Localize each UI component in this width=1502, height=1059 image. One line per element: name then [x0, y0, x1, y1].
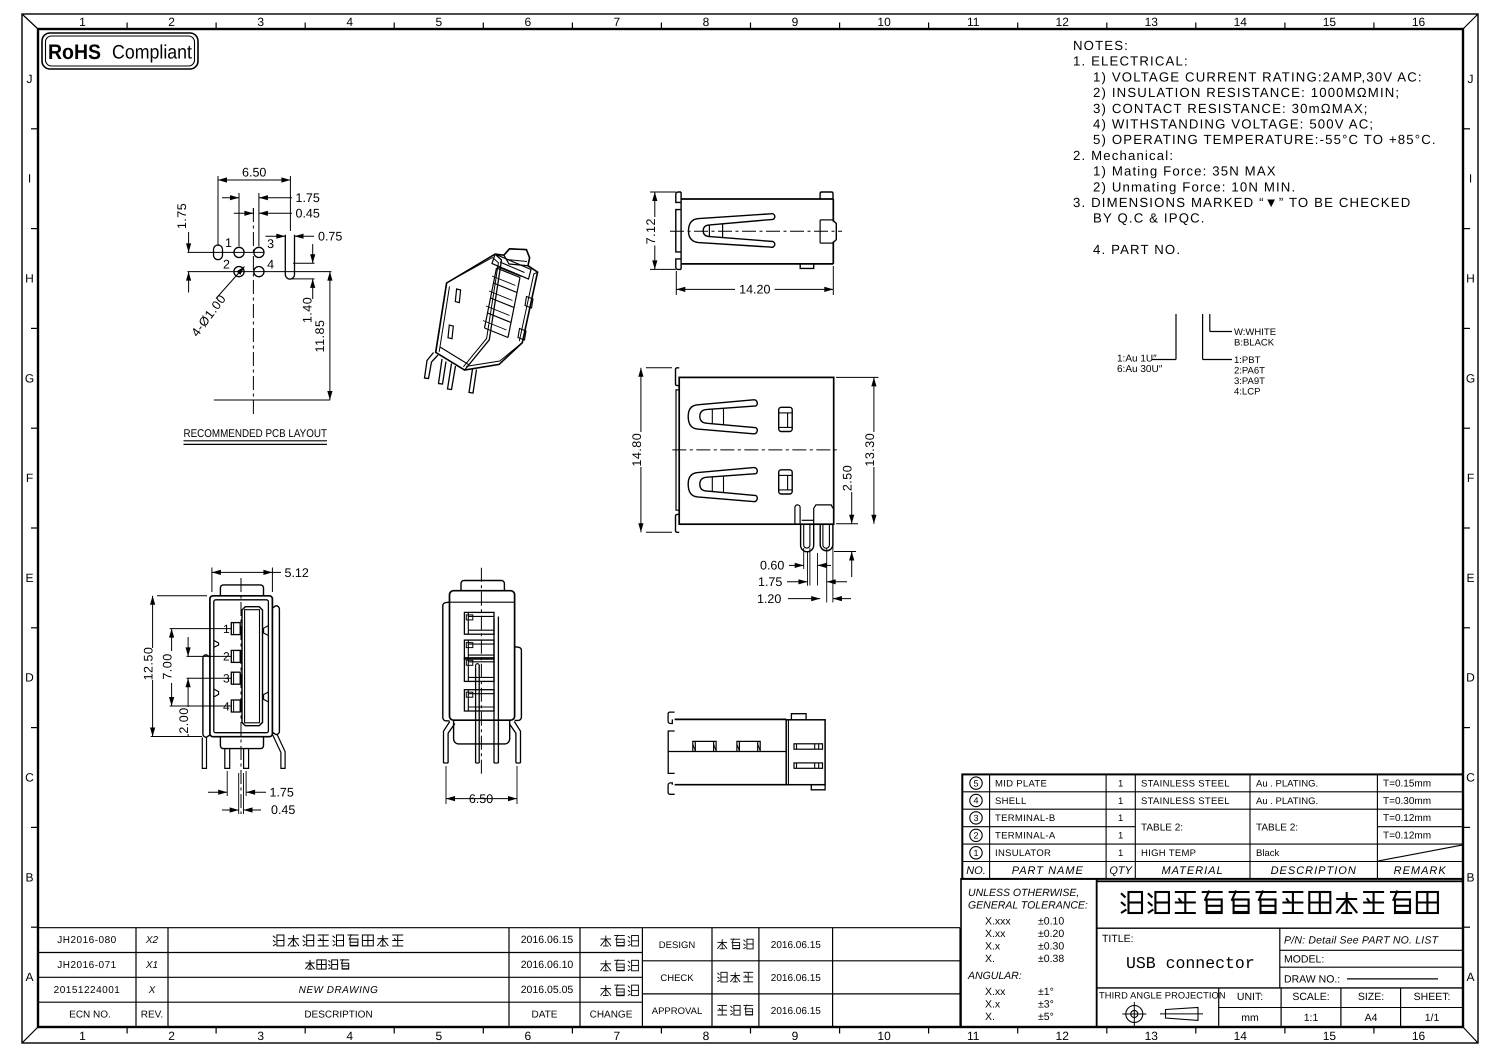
svg-text:X.: X. — [985, 953, 995, 965]
approval block grid — [642, 928, 960, 1027]
svg-text:2016.06.15: 2016.06.15 — [771, 940, 821, 951]
rear view bottom cap — [454, 720, 510, 744]
svg-text:STAINLESS STEEL: STAINLESS STEEL — [1141, 778, 1230, 789]
top view dim 7.12 — [650, 191, 676, 193]
mating view tongue — [242, 607, 263, 726]
bottom view right block top tab — [791, 714, 806, 720]
svg-text:6: 6 — [524, 15, 531, 29]
svg-text:X1: X1 — [145, 960, 158, 971]
mating view dim 5.12 — [211, 568, 213, 593]
svg-text:RECOMMENDED PCB LAYOUT: RECOMMENDED PCB LAYOUT — [184, 428, 328, 440]
svg-text:PART NAME: PART NAME — [1012, 865, 1084, 877]
svg-text:X.: X. — [985, 1011, 995, 1023]
iso mating face rim — [492, 254, 531, 279]
front view lower rivet — [779, 470, 793, 494]
svg-text:B: B — [25, 870, 33, 884]
svg-text:I: I — [1469, 172, 1472, 186]
revision table CJK descriptions — [273, 934, 638, 995]
svg-text:13: 13 — [1145, 1029, 1159, 1043]
svg-text:MODEL:: MODEL: — [1284, 954, 1324, 966]
svg-text:1: 1 — [1118, 831, 1123, 842]
svg-text:9: 9 — [792, 1029, 799, 1043]
mating view contacts — [231, 623, 240, 635]
svg-text:Black: Black — [1256, 848, 1279, 859]
pcb dim 1.75 left vertical — [188, 232, 190, 252]
svg-text:H: H — [25, 272, 34, 286]
svg-text:F: F — [26, 471, 33, 485]
svg-text:4. PART NO.: 4. PART NO. — [1093, 242, 1181, 257]
svg-text:±0.30: ±0.30 — [1038, 941, 1064, 953]
svg-text:5: 5 — [973, 778, 978, 788]
svg-text:H: H — [1466, 272, 1475, 286]
svg-text:ANGULAR:: ANGULAR: — [967, 970, 1022, 982]
svg-text:1: 1 — [225, 236, 232, 250]
front view dim 14.80 — [646, 367, 672, 369]
svg-text:TERMINAL-A: TERMINAL-A — [995, 831, 1056, 842]
top view right bump — [833, 222, 836, 242]
svg-text:1.75: 1.75 — [175, 203, 189, 229]
svg-text:T=0.12mm: T=0.12mm — [1383, 813, 1431, 824]
pcb dim 0.45 — [252, 208, 254, 213]
svg-text:6.50: 6.50 — [242, 166, 266, 180]
svg-text:9: 9 — [792, 15, 799, 29]
mating view body shell — [210, 596, 273, 737]
svg-text:INSULATOR: INSULATOR — [995, 848, 1051, 859]
svg-text:3) CONTACT RESISTANCE: 30mΩMAX: 3) CONTACT RESISTANCE: 30mΩMAX; — [1093, 101, 1369, 116]
title block grid — [1097, 881, 1463, 1027]
svg-text:2016.06.15: 2016.06.15 — [771, 973, 821, 984]
pcb dim 1.40 — [293, 262, 315, 264]
front view center line — [672, 449, 839, 451]
svg-text:20151224001: 20151224001 — [54, 985, 121, 996]
svg-text:8: 8 — [703, 15, 710, 29]
bottom view spring notch right — [737, 741, 760, 751]
svg-text:APPROVAL: APPROVAL — [652, 1006, 703, 1017]
svg-text:RoHS: RoHS — [48, 41, 101, 64]
mating view left side tab — [203, 655, 210, 738]
svg-text:JH2016-071: JH2016-071 — [57, 960, 116, 971]
svg-text:NO.: NO. — [966, 865, 986, 877]
svg-text:±3°: ±3° — [1038, 999, 1054, 1011]
svg-text:C: C — [1466, 771, 1475, 785]
front view dim 0.60 — [789, 564, 804, 566]
svg-text:4: 4 — [346, 1029, 353, 1043]
svg-text:2: 2 — [168, 15, 175, 29]
svg-text:CHANGE: CHANGE — [590, 1010, 633, 1021]
front view lower contact spring — [688, 468, 757, 502]
front view pin B — [820, 524, 833, 551]
iso right rivets — [525, 297, 533, 309]
iso front wall edges — [436, 254, 502, 370]
svg-text:TABLE 2:: TABLE 2: — [1141, 823, 1183, 834]
front view upper contact spring — [688, 400, 757, 434]
svg-text:2) Unmating Force: 10N MIN.: 2) Unmating Force: 10N MIN. — [1093, 179, 1296, 194]
revision table grid — [38, 928, 642, 1027]
svg-text:1.75: 1.75 — [270, 785, 294, 799]
svg-text:5: 5 — [435, 15, 442, 29]
svg-text:2) INSULATION RESISTANCE: 1000: 2) INSULATION RESISTANCE: 1000MΩMIN; — [1093, 85, 1400, 100]
rear view body — [450, 591, 515, 721]
mating view dim 0.45 bottom — [238, 773, 240, 814]
rear view — [443, 568, 522, 806]
iso bottom pins — [425, 353, 439, 379]
front view — [630, 368, 879, 606]
svg-text:1. ELECTRICAL:: 1. ELECTRICAL: — [1073, 54, 1189, 69]
mating view top cap — [220, 585, 263, 596]
svg-text:ECN NO.: ECN NO. — [69, 1010, 111, 1021]
rear view left tab — [443, 602, 450, 721]
mating view contact extension lines — [170, 628, 232, 630]
svg-text:4:LCP: 4:LCP — [1234, 387, 1260, 398]
svg-text:1: 1 — [1118, 796, 1123, 807]
svg-text:CHECK: CHECK — [660, 973, 694, 984]
parts table cell texts — [966, 778, 1447, 876]
svg-text:1: 1 — [79, 1029, 86, 1043]
svg-text:DESCRIPTION: DESCRIPTION — [1271, 865, 1357, 877]
svg-text:7.00: 7.00 — [161, 653, 175, 679]
svg-text:T=0.15mm: T=0.15mm — [1383, 778, 1431, 789]
svg-text:3: 3 — [257, 1029, 264, 1043]
svg-text:C: C — [25, 771, 34, 785]
svg-text:±5°: ±5° — [1038, 1011, 1054, 1023]
svg-text:±1°: ±1° — [1038, 986, 1054, 998]
svg-text:QTY: QTY — [1109, 865, 1132, 877]
svg-text:7: 7 — [614, 1029, 621, 1043]
svg-text:DRAW NO.:: DRAW NO.: — [1284, 974, 1340, 986]
svg-text:16: 16 — [1412, 1029, 1426, 1043]
iso contact slots zigzag — [485, 268, 521, 338]
front view dim 2.50 — [836, 523, 858, 525]
bottom view spring notch left — [693, 741, 716, 751]
svg-text:2016.06.15: 2016.06.15 — [771, 1006, 821, 1017]
svg-text:13: 13 — [1145, 15, 1159, 29]
svg-text:11.85: 11.85 — [313, 320, 327, 353]
svg-text:2: 2 — [973, 831, 978, 841]
rear view right corner pin — [509, 722, 520, 764]
svg-text:REMARK: REMARK — [1394, 865, 1447, 877]
svg-text:SCALE:: SCALE: — [1292, 991, 1329, 1003]
mating view center pins — [225, 749, 230, 769]
pcb leader 4-dia-1.00 — [216, 267, 245, 299]
svg-text:T=0.12mm: T=0.12mm — [1383, 831, 1431, 842]
svg-text:TITLE:: TITLE: — [1102, 933, 1134, 945]
pcb layout view — [175, 166, 342, 445]
pcb layout row line pins 1-3 — [187, 251, 263, 253]
RoHS Compliant badge — [42, 33, 198, 69]
parts list table grid — [962, 774, 1463, 879]
svg-text:MATERIAL: MATERIAL — [1161, 865, 1223, 877]
svg-text:X.xxx: X.xxx — [985, 916, 1011, 928]
title texts — [1099, 933, 1450, 1024]
iso body silhouette — [436, 249, 538, 370]
parts table remark diagonal — [1378, 845, 1462, 861]
svg-text:X: X — [148, 985, 156, 996]
svg-text:2.00: 2.00 — [177, 707, 191, 733]
svg-text:2.50: 2.50 — [841, 465, 855, 491]
mating view left leg — [202, 737, 206, 768]
mating view shell notches — [214, 640, 219, 647]
svg-text:2:PA6T: 2:PA6T — [1234, 366, 1265, 377]
rear view inner top line — [450, 601, 515, 603]
svg-text:7: 7 — [614, 15, 621, 29]
svg-text:J: J — [1468, 72, 1474, 86]
pcb hole pin 3 — [254, 247, 264, 257]
front view pin A — [801, 524, 814, 552]
svg-text:SHEET:: SHEET: — [1414, 991, 1451, 1003]
svg-text:0.45: 0.45 — [271, 803, 295, 817]
svg-text:TERMINAL-B: TERMINAL-B — [995, 813, 1056, 824]
svg-text:1: 1 — [1118, 813, 1123, 824]
svg-text:T=0.30mm: T=0.30mm — [1383, 796, 1431, 807]
front view pin extension lines — [803, 548, 805, 569]
front view left flange — [676, 368, 680, 386]
front view dim 1.20 — [788, 598, 820, 600]
rear view top cap — [461, 581, 504, 591]
part number legend tree — [1117, 314, 1276, 398]
svg-text:1.40: 1.40 — [301, 297, 315, 323]
pcb dim 0.75 — [266, 235, 286, 237]
iso wall slots — [455, 289, 460, 303]
svg-text:G: G — [25, 371, 34, 385]
svg-text:4) WITHSTANDING VOLTAGE: 500V: 4) WITHSTANDING VOLTAGE: 500V AC; — [1093, 117, 1374, 132]
pcb hole pin 4 — [254, 267, 264, 277]
front view body — [679, 377, 834, 524]
svg-text:GENERAL TOLERANCE:: GENERAL TOLERANCE: — [968, 900, 1088, 912]
mating view right side tab — [272, 606, 279, 735]
svg-text:Au . PLATING.: Au . PLATING. — [1256, 796, 1318, 807]
bottom view left mid strip — [668, 731, 674, 773]
svg-text:X.x: X.x — [985, 941, 1001, 953]
svg-text:16: 16 — [1412, 15, 1426, 29]
svg-text:12.50: 12.50 — [142, 647, 156, 681]
svg-text:F: F — [1467, 471, 1474, 485]
third angle projection symbol — [1122, 1002, 1203, 1026]
svg-text:14: 14 — [1234, 1029, 1248, 1043]
svg-text:STAINLESS STEEL: STAINLESS STEEL — [1141, 796, 1230, 807]
svg-text:2016.06.10: 2016.06.10 — [521, 959, 574, 971]
bottom view mid line — [668, 751, 787, 753]
svg-text:A4: A4 — [1365, 1012, 1378, 1024]
svg-text:SIZE:: SIZE: — [1358, 991, 1384, 1003]
bottom view right block — [786, 720, 825, 785]
svg-text:2: 2 — [223, 258, 230, 272]
svg-text:X.xx: X.xx — [985, 928, 1006, 940]
rear view contacts — [464, 612, 494, 634]
svg-text:3. DIMENSIONS MARKED “▼” TO BE: 3. DIMENSIONS MARKED “▼” TO BE CHECKED — [1073, 195, 1411, 210]
svg-text:UNIT:: UNIT: — [1237, 991, 1263, 1003]
svg-text:1.75: 1.75 — [296, 191, 320, 205]
svg-text:11: 11 — [967, 15, 980, 29]
rear view center line — [480, 568, 482, 777]
svg-text:NEW DRAWING: NEW DRAWING — [299, 985, 379, 996]
svg-text:1:PBT: 1:PBT — [1234, 355, 1261, 366]
pcb dim 1.75 top — [238, 193, 240, 246]
svg-text:X.xx: X.xx — [985, 986, 1006, 998]
svg-text:JH2016-080: JH2016-080 — [57, 935, 116, 946]
svg-text:1) Mating Force: 35N MAX: 1) Mating Force: 35N MAX — [1093, 164, 1277, 179]
svg-text:5: 5 — [435, 1029, 442, 1043]
svg-text:A: A — [25, 970, 33, 984]
svg-text:DATE: DATE — [532, 1010, 558, 1021]
svg-text:1: 1 — [973, 848, 978, 858]
top view left flange — [676, 192, 681, 202]
svg-text:1) VOLTAGE CURRENT RATING:2AMP: 1) VOLTAGE CURRENT RATING:2AMP,30V AC: — [1093, 69, 1423, 84]
svg-text:W:WHITE: W:WHITE — [1234, 327, 1276, 338]
svg-text:4: 4 — [267, 258, 274, 272]
svg-text:15: 15 — [1323, 15, 1337, 29]
tolerance block — [961, 879, 1097, 1027]
svg-text:mm: mm — [1241, 1012, 1259, 1024]
notes text block — [1073, 38, 1437, 257]
parts table item number circles — [970, 777, 982, 859]
svg-text:X2: X2 — [145, 935, 159, 946]
svg-text:±0.20: ±0.20 — [1038, 928, 1064, 940]
svg-text:MID PLATE: MID PLATE — [995, 778, 1047, 789]
svg-text:11: 11 — [967, 1029, 980, 1043]
mating view dim 2.00 — [187, 637, 189, 656]
svg-text:USB connector: USB connector — [1126, 954, 1255, 973]
svg-text:HIGH TEMP: HIGH TEMP — [1141, 848, 1196, 859]
svg-text:SHELL: SHELL — [995, 796, 1027, 807]
svg-text:10: 10 — [877, 15, 891, 29]
svg-text:UNLESS OTHERWISE,: UNLESS OTHERWISE, — [968, 887, 1079, 899]
front view dim 13.30 — [836, 376, 879, 378]
svg-text:15: 15 — [1323, 1029, 1337, 1043]
approval block texts — [652, 939, 822, 1017]
top view — [644, 192, 842, 297]
pcb hole slot right — [285, 235, 294, 279]
pcb bottom line — [214, 399, 330, 401]
svg-text:14.80: 14.80 — [630, 433, 644, 467]
svg-text:DESIGN: DESIGN — [659, 940, 696, 951]
bottom view left bottom hook — [668, 783, 675, 794]
mating view right leg — [273, 734, 286, 768]
rear view dim 6.50 — [445, 766, 447, 804]
svg-text:14: 14 — [1234, 15, 1248, 29]
iso extra shell edges — [466, 272, 537, 366]
svg-text:J: J — [27, 72, 33, 86]
svg-text:B:BLACK: B:BLACK — [1234, 338, 1275, 349]
top view dim 14.20 — [675, 271, 677, 295]
svg-text:D: D — [25, 671, 34, 685]
pcb hole slot left — [214, 245, 223, 260]
svg-text:A: A — [1466, 970, 1474, 984]
svg-text:THIRD ANGLE PROJECTION: THIRD ANGLE PROJECTION — [1099, 991, 1226, 1001]
rear view pin A — [493, 619, 495, 763]
svg-text:2016.06.15: 2016.06.15 — [521, 934, 574, 946]
front view terminal seams — [795, 505, 800, 524]
svg-text:3: 3 — [257, 15, 264, 29]
company name (CJK pseudo-glyphs) — [1121, 891, 1438, 914]
svg-text:3: 3 — [973, 813, 978, 823]
pcb layout center line vertical — [252, 208, 254, 415]
top view latch spring — [688, 214, 774, 248]
rear view right tab — [515, 647, 522, 721]
svg-text:1: 1 — [1118, 778, 1123, 789]
svg-text:±0.38: ±0.38 — [1038, 953, 1064, 965]
svg-text:1: 1 — [1118, 848, 1123, 859]
bottom view slots — [794, 744, 823, 749]
svg-text:0.75: 0.75 — [318, 230, 342, 244]
svg-text:±0.10: ±0.10 — [1038, 916, 1064, 928]
mating view bottom cap — [220, 737, 263, 749]
pcb hole pin 1 — [234, 247, 244, 257]
svg-text:8: 8 — [703, 1029, 710, 1043]
svg-text:6: 6 — [524, 1029, 531, 1043]
svg-text:X.x: X.x — [985, 999, 1001, 1011]
svg-text:G: G — [1466, 371, 1475, 385]
svg-text:0.45: 0.45 — [296, 207, 320, 221]
svg-text:B: B — [1466, 870, 1474, 884]
svg-text:1:1: 1:1 — [1304, 1012, 1319, 1024]
mating view dim 7.00 — [171, 629, 173, 651]
svg-text:2: 2 — [168, 1029, 175, 1043]
bottom view — [668, 712, 825, 794]
top view top-right tab — [820, 192, 833, 199]
svg-text:4: 4 — [346, 15, 353, 29]
svg-text:2. Mechanical:: 2. Mechanical: — [1073, 148, 1174, 163]
svg-text:1.20: 1.20 — [757, 592, 781, 606]
svg-text:1/1: 1/1 — [1425, 1012, 1440, 1024]
svg-text:E: E — [25, 571, 33, 585]
svg-text:4: 4 — [973, 796, 978, 806]
svg-text:NOTES:: NOTES: — [1073, 38, 1129, 53]
svg-text:TABLE 2:: TABLE 2: — [1256, 823, 1298, 834]
svg-text:1.75: 1.75 — [758, 575, 782, 589]
mating face view — [142, 566, 309, 817]
front view dim 1.75 — [787, 581, 808, 583]
svg-text:1: 1 — [79, 15, 86, 29]
bottom view body outline — [675, 718, 787, 720]
svg-text:14.20: 14.20 — [739, 283, 770, 297]
rear view left corner pin — [444, 722, 455, 764]
isometric view — [425, 249, 538, 393]
svg-text:10: 10 — [877, 1029, 891, 1043]
svg-text:E: E — [1466, 571, 1474, 585]
svg-text:6:Au 30U″: 6:Au 30U″ — [1117, 364, 1163, 375]
svg-text:12: 12 — [1056, 15, 1070, 29]
svg-text:2016.05.05: 2016.05.05 — [521, 984, 574, 996]
top view bottom-right tab — [800, 264, 814, 269]
svg-text:REV.: REV. — [141, 1010, 163, 1021]
svg-text:I: I — [28, 172, 31, 186]
iso top tab — [504, 249, 530, 266]
rear view pin B — [475, 667, 477, 763]
svg-text:3: 3 — [267, 237, 274, 251]
pcb dim 11.85 — [329, 272, 331, 400]
pcb hole pin 2 — [234, 267, 244, 277]
top view center line — [670, 230, 842, 232]
svg-text:Au . PLATING.: Au . PLATING. — [1256, 778, 1318, 789]
pcb layout row line pins 2-4 — [187, 271, 331, 273]
pcb dim 6.50 — [217, 176, 219, 246]
svg-text:5) OPERATING TEMPERATURE:-55°C: 5) OPERATING TEMPERATURE:-55°C TO +85°C. — [1093, 132, 1437, 147]
svg-text:7.12: 7.12 — [644, 218, 658, 244]
mating view dim 1.75 bottom — [226, 771, 228, 796]
svg-text:BY Q.C & IPQC.: BY Q.C & IPQC. — [1093, 211, 1206, 226]
svg-text:12: 12 — [1056, 1029, 1070, 1043]
bottom view left top hook — [668, 712, 675, 723]
svg-text:0.60: 0.60 — [760, 559, 784, 573]
svg-text:6.50: 6.50 — [469, 792, 493, 806]
svg-text:DESCRIPTION: DESCRIPTION — [304, 1010, 372, 1021]
top view body outline — [681, 198, 833, 200]
svg-text:3:PA9T: 3:PA9T — [1234, 376, 1265, 387]
svg-text:P/N: Detail See PART NO. LIST: P/N: Detail See PART NO. LIST — [1284, 935, 1440, 947]
svg-text:1:Au 1U″: 1:Au 1U″ — [1117, 354, 1157, 365]
svg-text:D: D — [1466, 671, 1475, 685]
front view upper rivet — [779, 407, 793, 431]
